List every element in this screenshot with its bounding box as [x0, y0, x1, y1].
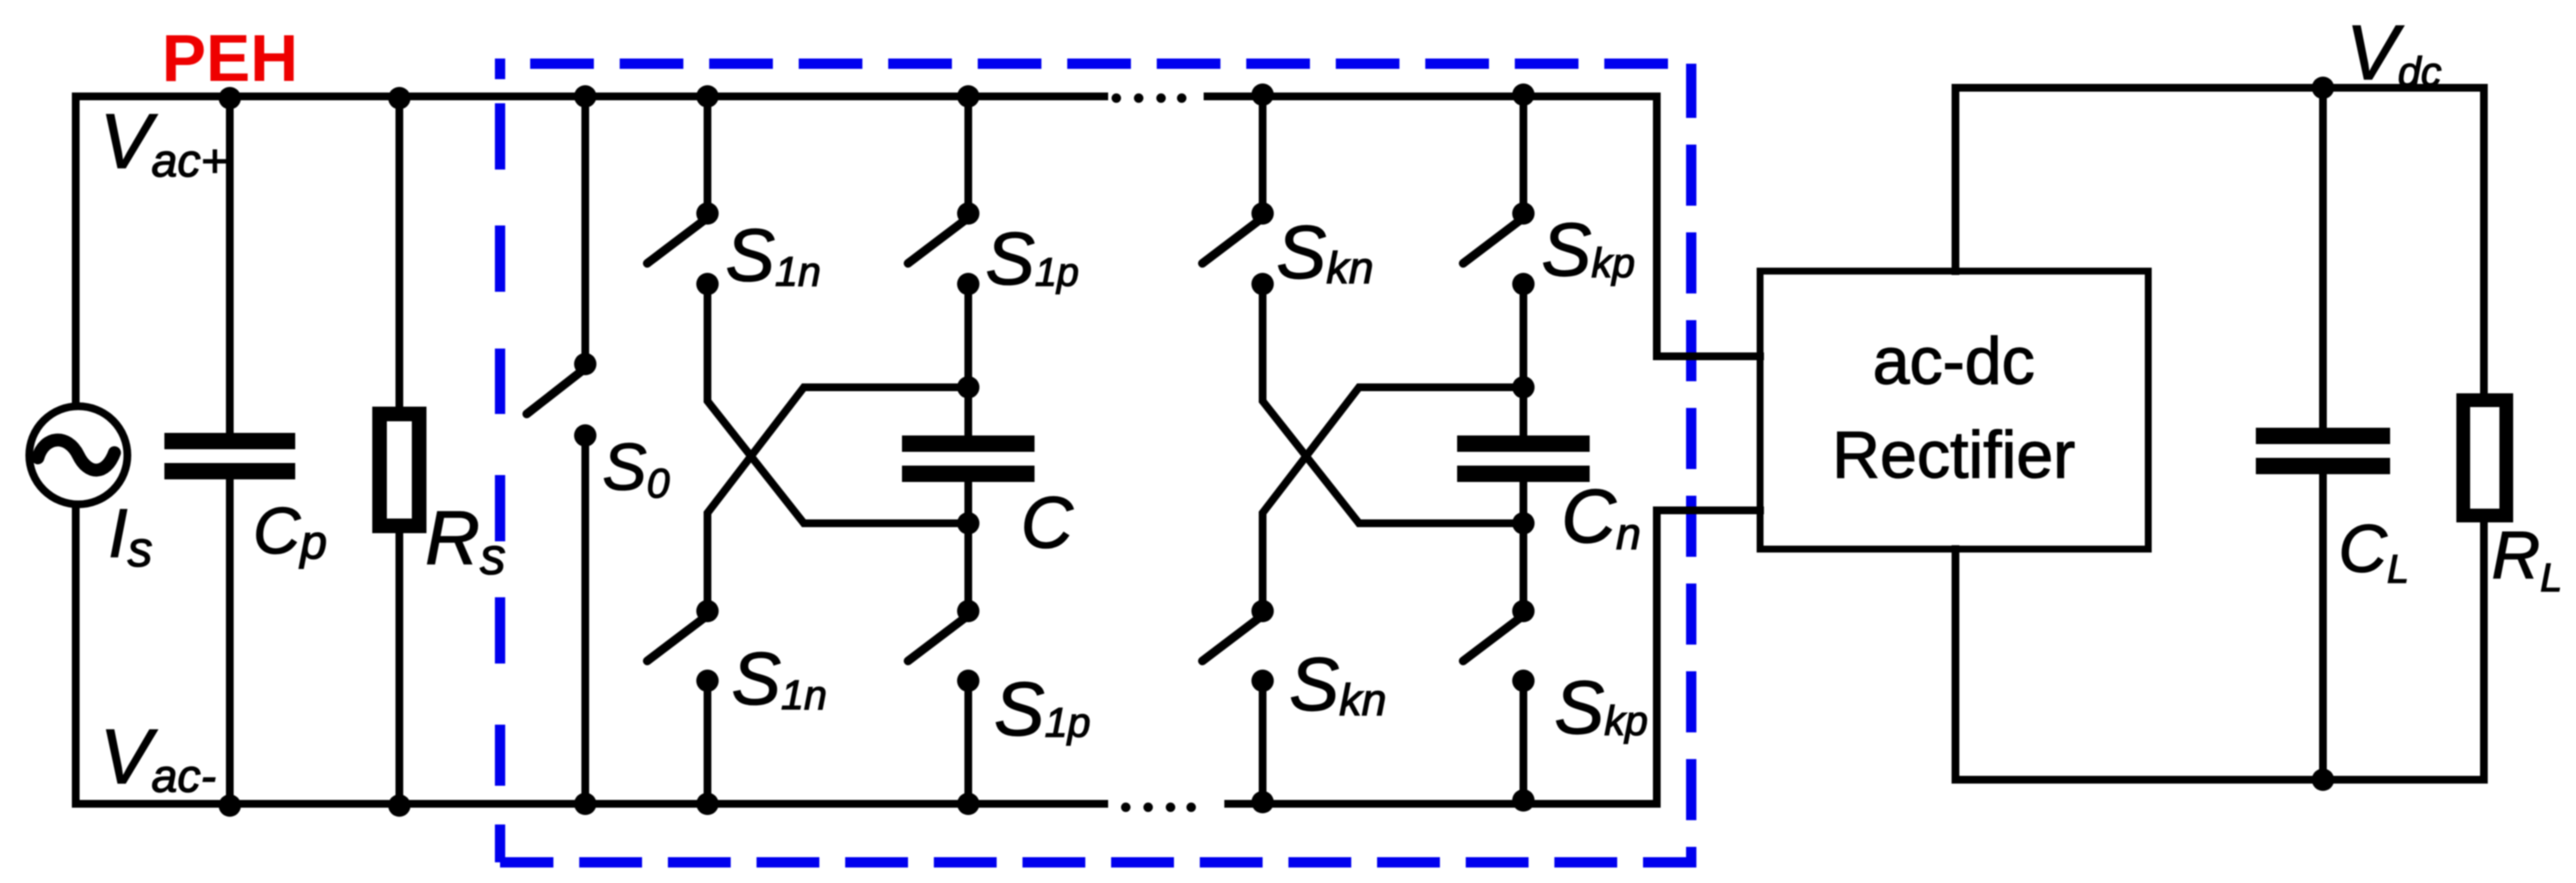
- wire cap Cn bottom to Skp bottom switch: [1520, 482, 1528, 611]
- capacitor CL plates: [2256, 428, 2390, 444]
- dashed boundary box (blue): [495, 59, 1696, 862]
- wire DC bottom rail: [1955, 776, 2484, 784]
- node DC bottom CL junction: [2312, 769, 2334, 791]
- node top rail S1p junction: [957, 85, 979, 108]
- switch S1p bottom blade: [908, 618, 965, 661]
- switch S0 blade: [527, 371, 582, 414]
- node top rail S1n junction: [696, 85, 719, 108]
- capacitor Cn plates: [1457, 435, 1590, 452]
- wire cross upper branch cell 1: [707, 387, 968, 611]
- node bottom rail S0 junction: [574, 793, 596, 815]
- node top rail Rs junction: [388, 87, 411, 109]
- node bottom rail Skp junction: [1512, 789, 1535, 812]
- switch S1n bottom blade: [647, 618, 704, 661]
- resistor Rs body: [380, 414, 419, 526]
- node bottom rail Skn junction: [1251, 791, 1274, 813]
- wire Cp branch upper: [226, 96, 234, 433]
- resistor RL body: [2463, 400, 2506, 516]
- wire S1p top branch: [965, 96, 973, 213]
- node S1p bottom switch contacts: [957, 600, 979, 622]
- svg-text:Rectifier: Rectifier: [1832, 418, 2075, 492]
- wire S1n top branch: [704, 96, 712, 213]
- node top rail S0 junction: [574, 85, 596, 108]
- wire Skn to cross lower-left of cell k: [1263, 284, 1523, 523]
- capacitor Cp plates: [164, 433, 295, 449]
- wire CL branch lower: [2320, 474, 2327, 780]
- node Skp top switch contacts: [1512, 202, 1535, 225]
- switch Skp top blade: [1463, 220, 1520, 263]
- node S0 switch bottom contact: [574, 424, 596, 447]
- switch S1p top blade: [908, 220, 965, 263]
- wire S0 branch upper: [582, 96, 590, 364]
- wire RL branch: [2480, 88, 2488, 780]
- wire rectifier output top to Vdc rail: [1952, 88, 1960, 271]
- wire bottom rail AC (left segment): [76, 800, 1104, 808]
- wire Skp bottom to rail: [1520, 681, 1528, 804]
- node top rail Cp junction: [219, 87, 241, 109]
- wire top rail AC (left segment): [76, 93, 1104, 101]
- node cap C top: [957, 376, 979, 398]
- node Skp bottom switch contacts: [1512, 600, 1535, 622]
- wire bottom rail AC (right segment with corner to rectifier input 2): [1228, 510, 1760, 804]
- wire S0 branch lower: [582, 435, 590, 804]
- node S0 switch top contact: [574, 353, 596, 375]
- wire left vertical (source branch): [72, 96, 80, 406]
- switch Skn top blade: [1202, 220, 1259, 263]
- wire cross upper branch cell k: [1263, 387, 1523, 611]
- wire Skn bottom to rail: [1259, 681, 1267, 804]
- current source Is (circle with sine): [29, 406, 127, 504]
- wire S1p below switch to cap C top: [965, 284, 973, 435]
- svg-text:PEH: PEH: [162, 22, 298, 96]
- node bottom rail S1n junction: [696, 793, 719, 815]
- node bottom rail Rs junction: [388, 794, 411, 817]
- wire left vertical lower: [72, 504, 80, 804]
- wire Cp branch lower: [226, 479, 234, 804]
- svg-text:C: C: [1021, 482, 1074, 563]
- wire Skp top branch: [1520, 96, 1528, 213]
- wire S1n to cross lower-left of cell 1: [707, 284, 968, 523]
- wire DC top rail: [1955, 84, 2484, 92]
- switch Skn bottom blade: [1202, 618, 1259, 661]
- node bottom rail Cp junction: [219, 794, 241, 817]
- node top rail Skp junction: [1512, 83, 1535, 106]
- ellipsis dots bottom rail: [1121, 803, 1131, 812]
- switch Skp bottom blade: [1463, 618, 1520, 661]
- node S1n top switch contacts: [696, 202, 719, 225]
- switch S1n top blade: [647, 220, 704, 263]
- node S1n bottom switch contacts: [696, 600, 719, 622]
- ac-dc rectifier U1 box: [1760, 271, 2148, 549]
- wire Skp below switch to cap Cn top: [1520, 284, 1528, 435]
- wire CL branch upper: [2320, 88, 2327, 428]
- node Vdc junction: [2312, 77, 2334, 99]
- svg-text:ac-dc: ac-dc: [1873, 324, 2035, 398]
- wire S1p bottom to rail: [965, 681, 973, 804]
- node Skn top switch contacts: [1251, 202, 1274, 225]
- wire S1n bottom to rail: [704, 681, 712, 804]
- wire rectifier output bottom: [1952, 549, 1960, 780]
- wire Rs branch: [396, 96, 404, 804]
- node S1p top switch contacts: [957, 202, 979, 225]
- node bottom rail S1p junction: [957, 793, 979, 815]
- node cap C bottom: [957, 512, 979, 534]
- node cap Cn top: [1512, 376, 1535, 398]
- node Skn bottom switch contacts: [1251, 600, 1274, 622]
- wire top rail AC (right segment with corner to rectifier input 1): [1208, 96, 1760, 356]
- wire cap C bottom to S1p bottom switch: [965, 482, 973, 611]
- node cap Cn bottom: [1512, 512, 1535, 534]
- node top rail Skn junction: [1251, 83, 1274, 106]
- capacitor C plates: [902, 435, 1035, 452]
- ellipsis dots top rail: [1112, 94, 1121, 103]
- wire Skn top branch: [1259, 96, 1267, 213]
